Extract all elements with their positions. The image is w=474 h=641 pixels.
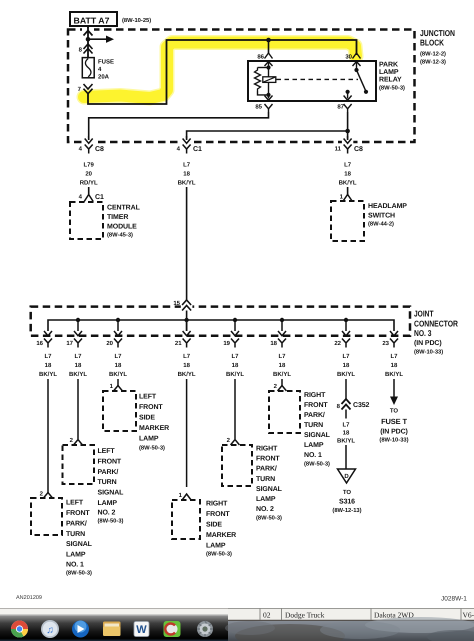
coil element box [263,77,276,83]
svg-text:L7: L7 [342,422,350,429]
svg-text:CENTRAL: CENTRAL [107,205,141,212]
svg-text:(8W-10-33): (8W-10-33) [414,349,443,356]
junction block label [420,28,455,66]
svg-text:(IN PDC): (IN PDC) [380,428,408,436]
wire labels L7 18 BK/YL under each pin [39,353,403,378]
svg-text:MARKER: MARKER [206,532,236,539]
svg-text:AN201209: AN201209 [16,595,42,601]
headlamp switch label [368,203,407,228]
connector C8 pin 4 (left) [79,139,104,154]
svg-text:FRONT: FRONT [98,458,122,465]
connector symbol pin 86 [265,53,273,66]
left front park/turn signal lamp no.1 pin 2 [40,491,53,499]
svg-text:18: 18 [391,362,398,369]
svg-text:18: 18 [279,362,286,369]
svg-text:NO. 2: NO. 2 [256,506,274,513]
svg-text:18: 18 [270,340,277,347]
svg-text:86: 86 [257,54,264,61]
svg-text:L7: L7 [74,353,82,360]
svg-text:LEFT: LEFT [139,394,157,401]
connector symbol pin 87 [347,92,349,99]
svg-text:RD/YL: RD/YL [80,180,98,187]
svg-text:20: 20 [85,171,92,178]
svg-text:L7: L7 [390,353,398,360]
svg-text:LAMP: LAMP [256,496,276,503]
svg-text:S316: S316 [339,499,355,506]
svg-text:(8W-45-3): (8W-45-3) [107,232,133,239]
svg-text:L7: L7 [278,353,286,360]
wire L7 18 BK/YL label (right) [339,162,357,187]
svg-text:NO. 1: NO. 1 [66,562,84,569]
bus continuation arrow [88,38,106,40]
svg-text:L7: L7 [114,353,122,360]
white gap in dashed border at BATT wire crossing [82,28,94,33]
svg-text:02: 02 [263,611,271,620]
svg-text:SIGNAL: SIGNAL [304,432,331,439]
dock icon itunes [41,620,59,638]
svg-text:BK/YL: BK/YL [109,371,127,378]
svg-text:(8W-12-3): (8W-12-3) [420,59,446,66]
svg-text:D: D [344,473,349,480]
svg-text:CONNECTOR: CONNECTOR [414,319,458,329]
svg-text:TO: TO [390,408,399,415]
svg-text:17: 17 [66,340,73,347]
highlighted feed wire halo [84,43,356,99]
svg-text:♫: ♫ [46,625,54,636]
joint connector label [414,309,458,356]
svg-text:SIGNAL: SIGNAL [66,541,93,548]
white gaps in dashed border at connector crossings [83,140,94,145]
svg-text:FRONT: FRONT [206,511,230,518]
right front park/turn signal lamp no.1 pin 2 [274,379,287,391]
wire pin21 to right side marker [186,379,188,487]
central timer module label [107,205,141,239]
svg-text:18: 18 [343,430,350,437]
svg-text:SIGNAL: SIGNAL [256,486,283,493]
junction block dashed box [68,30,415,143]
svg-text:20: 20 [106,340,113,347]
left front park/turn signal lamp no.2 pin 2 [70,437,83,445]
svg-text:SIDE: SIDE [206,522,222,529]
svg-text:FUSE T: FUSE T [381,417,407,426]
svg-text:PARK/: PARK/ [256,465,277,473]
svg-text:L7: L7 [342,353,350,360]
connector pin 1 at headlamp switch [340,194,352,202]
svg-text:BK/YL: BK/YL [178,371,196,378]
svg-text:TURN: TURN [98,479,117,486]
left front park/turn signal lamp no.2 box [63,445,95,484]
svg-text:18: 18 [115,362,122,369]
svg-text:BK/YL: BK/YL [226,371,244,378]
svg-text:PARK/: PARK/ [304,411,325,419]
svg-text:SIDE: SIDE [139,415,155,422]
svg-text:NO. 1: NO. 1 [304,452,322,459]
connector symbol pin 30 [353,53,361,66]
svg-text:SWITCH: SWITCH [368,213,395,220]
park lamp relay U1 box [248,61,376,101]
connector C1 pin 4 at CTM [79,194,104,202]
svg-text:PARK/: PARK/ [66,519,87,527]
internal bus of joint connector [48,320,394,331]
connector double chevron pin 7 [84,84,93,94]
svg-text:Dodge Truck: Dodge Truck [285,611,325,620]
svg-text:W: W [136,624,147,636]
svg-text:18: 18 [344,171,351,178]
svg-text:C1: C1 [95,194,104,201]
svg-text:(8W-50-3): (8W-50-3) [139,445,165,452]
svg-text:BK/YL: BK/YL [39,371,57,378]
wire L79 20 RD/YL label [80,162,98,187]
connector C? double chevron pin 8 [84,44,93,54]
svg-text:21: 21 [175,340,182,347]
wire L7 18 BK/YL to splice [337,422,355,445]
svg-text:BK/YL: BK/YL [273,371,291,378]
coil actuation dashed link [277,78,359,80]
svg-text:PARK/: PARK/ [98,468,119,476]
svg-text:BK/YL: BK/YL [337,371,355,378]
dock icon folder [103,622,121,637]
svg-text:V6-3.9: V6-3.9 [463,611,474,620]
connector C352 pin 8 [337,399,370,410]
svg-text:18: 18 [75,362,82,369]
resistor zigzag in coil [255,68,261,92]
svg-text:L7: L7 [183,162,191,169]
svg-text:18: 18 [343,362,350,369]
wire relay 87 down [347,112,349,139]
svg-text:JOINT: JOINT [414,309,434,319]
svg-text:(8W-10-25): (8W-10-25) [122,17,151,24]
desktop wallpaper [225,617,474,641]
svg-text:SIGNAL: SIGNAL [98,490,125,497]
status bar strip above dock [0,609,474,616]
battery feed box BATT A7 [70,12,117,26]
dock icon media player [72,621,89,638]
node B+ junction dot [86,37,91,42]
connector double chevron pin 15 [182,300,191,311]
svg-text:(8W-50-3): (8W-50-3) [206,551,232,558]
svg-text:(8W-10-33): (8W-10-33) [379,437,408,444]
svg-text:FRONT: FRONT [304,402,328,409]
svg-text:L79: L79 [84,162,95,169]
svg-text:85: 85 [255,104,262,111]
svg-text:19: 19 [223,340,230,347]
right front park/turn signal lamp no.2 pin 2 [227,437,240,445]
fuse 4 20A [82,58,114,81]
dock icon chrome [11,621,28,638]
svg-text:RELAY: RELAY [379,77,402,84]
svg-text:22: 22 [334,340,341,347]
svg-text:RIGHT: RIGHT [304,392,326,399]
dock icon ccleaner [164,621,181,637]
left front park/turn signal lamp no.2 label [98,448,125,525]
svg-text:L7: L7 [183,353,191,360]
vehicle info window table row [228,608,474,621]
connector C8 pin 11 (right) [335,139,363,154]
dock icon utility gear [197,621,213,637]
svg-text:C8: C8 [354,146,363,153]
node S316 destination label [332,489,361,514]
svg-text:J028W-1: J028W-1 [441,596,467,603]
right front side marker lamp label [206,501,236,558]
node dots on bus [76,318,80,322]
svg-text:C8: C8 [95,146,104,153]
svg-text:MODULE: MODULE [107,224,137,231]
svg-text:TURN: TURN [66,531,85,538]
left front side marker lamp label [139,394,169,452]
node fuse T destination label [379,408,408,444]
white gap in dashed border at pin 15 crossing [181,304,193,309]
svg-text:TURN: TURN [304,422,323,429]
svg-text:(8W-44-2): (8W-44-2) [368,221,394,228]
right front side marker lamp pin 1 [179,492,191,500]
svg-text:HEADLAMP: HEADLAMP [368,203,407,210]
pin sockets below joint connector [44,339,398,348]
svg-text:BK/YL: BK/YL [385,371,403,378]
relay coil branch [255,65,276,97]
right front side marker lamp box [172,500,200,539]
svg-text:16: 16 [36,340,43,347]
svg-text:RIGHT: RIGHT [256,446,278,453]
svg-text:(8W-50-3): (8W-50-3) [304,461,330,468]
svg-text:20A: 20A [98,74,110,81]
svg-text:LAMP: LAMP [98,500,118,507]
wire pin17 to lamp no.2 [77,379,79,439]
node junction dot at 87 branch [345,129,350,134]
svg-text:LAMP: LAMP [379,69,399,76]
wire branch to C1 pin 4 [187,131,348,139]
svg-text:BATT A7: BATT A7 [74,16,110,26]
left front side marker lamp pin 1 [110,379,123,391]
left front park/turn signal lamp no.1 label [66,500,93,577]
svg-text:LEFT: LEFT [66,500,84,507]
svg-text:(8W-50-3): (8W-50-3) [66,570,92,577]
highlighted feed wire (yellow marker) [84,43,356,99]
wire down to splice triangle [345,410,347,419]
svg-text:BK/YL: BK/YL [178,180,196,187]
svg-text:BK/YL: BK/YL [339,180,357,187]
svg-text:LAMP: LAMP [139,436,159,443]
svg-text:18: 18 [232,362,239,369]
wire to headlamp switch [347,187,349,195]
svg-text:FUSE: FUSE [98,59,114,66]
wire pin19 to right lamp no.2 [234,379,236,439]
right front park/turn signal lamp no.1 box [269,391,300,433]
svg-text:LAMP: LAMP [304,442,324,449]
relay switch contact [346,68,369,94]
svg-text:(IN PDC): (IN PDC) [414,339,442,347]
relay label [379,62,405,92]
wire pin22 to C352 [345,379,347,399]
right front park/turn signal lamp no.1 label [304,392,331,468]
svg-text:L7: L7 [231,353,239,360]
svg-text:L7: L7 [344,162,352,169]
svg-text:TIMER: TIMER [107,214,128,221]
right front park/turn signal lamp no.2 box [222,445,252,486]
svg-text:JUNCTION: JUNCTION [420,28,455,38]
wire relay 85 to connector C8 pin 4 [89,112,269,139]
headlamp switch box [331,201,364,241]
left front side marker lamp box [103,391,136,431]
svg-text:(8W-50-3): (8W-50-3) [98,518,124,525]
svg-text:(8W-50-3): (8W-50-3) [256,515,282,522]
svg-text:30: 30 [345,54,352,61]
left front park/turn signal lamp no.1 box [31,498,62,535]
dock icon word [134,622,149,637]
connector symbol pin 85 [268,95,270,99]
arrow to fuse T [390,397,398,406]
pin numbers 16 17 20 21 19 18 22 23 [36,340,389,347]
wire fuse output to relay pin 30 (highlighted circuit) [88,40,357,104]
splice symbol S316 (triangle) [338,469,356,483]
svg-text:C352: C352 [353,402,370,409]
svg-text:11: 11 [335,146,342,153]
svg-text:MARKER: MARKER [139,425,169,432]
central timer module box [70,202,103,239]
wire C1 to joint connector pin 15 [186,187,188,301]
bus drop wires with exit arrows [44,320,398,336]
svg-text:TO: TO [343,489,352,496]
svg-text:15: 15 [173,300,180,307]
svg-text:(8W-12-2): (8W-12-2) [420,51,446,58]
right front park/turn signal lamp no.2 label [256,446,283,522]
svg-text:BK/YL: BK/YL [337,438,355,445]
dock bar background [0,615,228,641]
svg-text:BLOCK: BLOCK [420,38,445,48]
svg-text:(8W-50-3): (8W-50-3) [379,85,405,92]
svg-text:FRONT: FRONT [139,404,163,411]
svg-text:LAMP: LAMP [66,552,86,559]
svg-text:FRONT: FRONT [256,456,280,463]
svg-text:18: 18 [183,171,190,178]
wire pin16 to lamp no.1 [47,379,49,493]
svg-text:PARK: PARK [379,62,398,69]
wire pin23 to fuse T arrow [393,379,395,397]
svg-text:NO. 2: NO. 2 [98,510,116,517]
wire from BATT A7 down [87,26,89,58]
connector arrow at junction block entry [84,31,93,36]
svg-text:C1: C1 [193,146,202,153]
connector C1 pin 4 (middle) [177,139,202,154]
node coil feed junction dot [266,38,271,43]
svg-text:23: 23 [382,340,389,347]
joint connector no.3 dashed box [31,307,410,336]
svg-text:L7: L7 [44,353,52,360]
svg-text:TURN: TURN [256,476,275,483]
svg-text:FRONT: FRONT [66,510,90,517]
svg-text:LEFT: LEFT [98,448,116,455]
svg-text:BK/YL: BK/YL [69,371,87,378]
svg-text:RIGHT: RIGHT [206,501,228,508]
wire L7 18 BK/YL label (middle) [178,162,196,187]
svg-text:(8W-12-13): (8W-12-13) [332,507,361,514]
svg-text:18: 18 [183,362,190,369]
wire junction dot to relay pin 86 [268,40,270,53]
svg-text:NO. 3: NO. 3 [414,328,432,338]
svg-text:LAMP: LAMP [206,543,226,550]
svg-text:18: 18 [45,362,52,369]
wire to CTM [88,187,90,195]
